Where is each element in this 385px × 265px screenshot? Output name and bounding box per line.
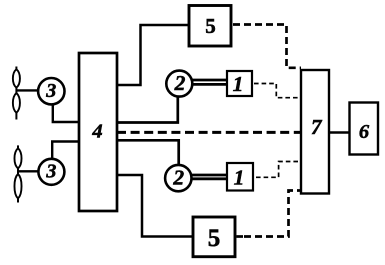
- dashed wire: block 5 (top) to block 7: [233, 25, 301, 68]
- wire: block 4 to generator 2 (bottom): [117, 140, 179, 165]
- block 5 (bottom): [193, 217, 235, 257]
- propeller P1 upper blade: [13, 69, 20, 88]
- svg-text:4: 4: [91, 121, 102, 143]
- block 7 (controller): [301, 70, 329, 194]
- svg-text:5: 5: [208, 225, 221, 252]
- wire: block 7 to block 6: [329, 131, 350, 133]
- svg-text:3: 3: [45, 80, 56, 102]
- motor 3 (bottom) circle: [38, 159, 64, 185]
- svg-text:2: 2: [172, 166, 184, 190]
- svg-text:6: 6: [359, 121, 370, 143]
- block 4 (main distribution unit): [79, 53, 117, 211]
- shaft: generator 2 (bottom) to block 1 (bottom): [191, 174, 227, 177]
- svg-text:1: 1: [234, 166, 245, 190]
- motor 3 (top) circle: [38, 78, 64, 104]
- wire: block 4 to generator 2 (top): [117, 97, 178, 123]
- svg-text:3: 3: [45, 160, 56, 182]
- block 6 (output): [350, 103, 379, 155]
- block 1 (bottom): [227, 163, 253, 191]
- svg-text:7: 7: [311, 115, 323, 139]
- wire: propeller P2 to motor 3 (bottom): [18, 170, 39, 172]
- propeller P2 lower blade: [14, 174, 21, 198]
- propeller P1 (top left) axis: [15, 67, 17, 120]
- block 5 (top): [189, 6, 231, 47]
- generator 2 (bottom) circle: [165, 165, 191, 191]
- wire: block 4 to block 5 (top): [117, 25, 188, 85]
- dashed wire: block 5 (bottom) to block 7: [237, 235, 244, 238]
- propeller P2 (bottom left) axis: [17, 145, 19, 202]
- generator 2 (top) circle: [166, 71, 192, 97]
- wire: block 4 to block 5 (bottom): [117, 175, 192, 237]
- wire: propeller P1 to motor 3 (top): [16, 89, 38, 91]
- shaft: generator 2 (top) to block 1 (top): [192, 79, 228, 82]
- dashed wire: block 1 (bottom) to block 7: [256, 162, 301, 178]
- wire: motor 3 (bottom) to block 4: [52, 142, 79, 160]
- dashed wire: block 1 (top) to block 7: [254, 84, 301, 98]
- propeller P1 lower blade: [13, 93, 20, 113]
- svg-text:5: 5: [205, 14, 216, 38]
- wire: motor 3 (top) to block 4: [53, 104, 79, 122]
- bus: thick dashed control line block 4 to block 7: [117, 131, 301, 134]
- block 1 (top): [227, 71, 252, 96]
- propeller P2 upper blade: [14, 148, 21, 168]
- svg-text:2: 2: [174, 71, 186, 95]
- svg-text:1: 1: [233, 72, 244, 96]
